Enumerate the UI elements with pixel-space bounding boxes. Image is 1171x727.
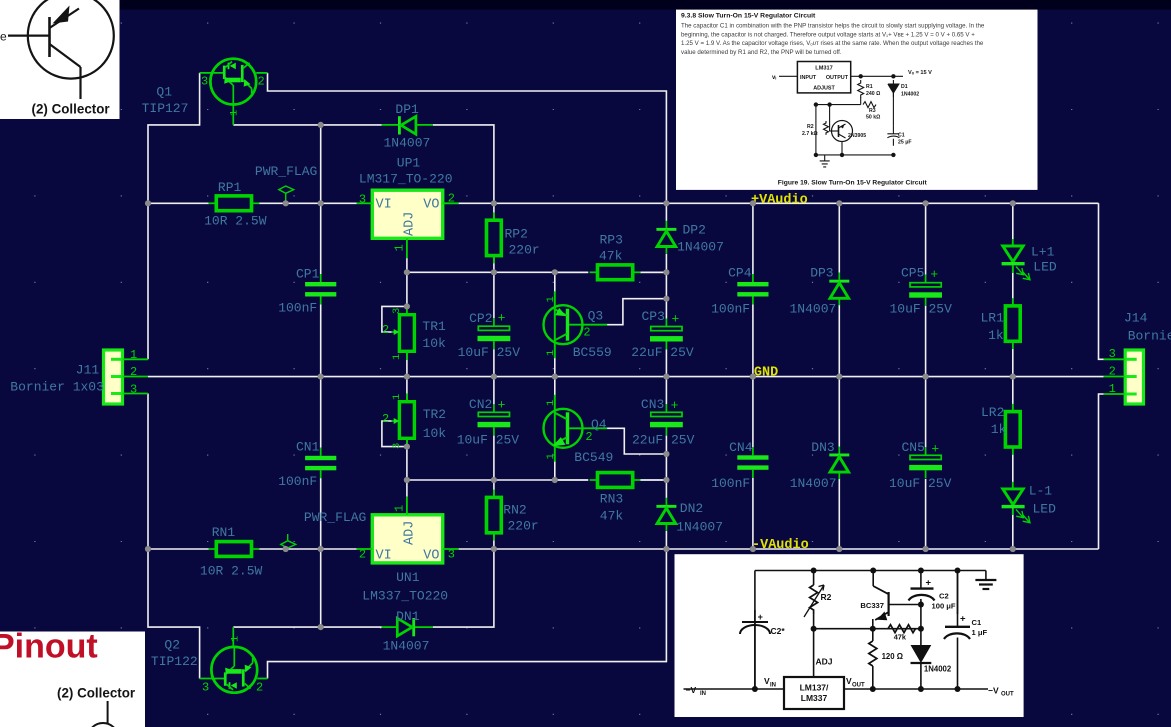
svg-text:220r: 220r bbox=[509, 243, 540, 258]
junction at (666.4,480.0) bbox=[663, 477, 669, 483]
junction at (493.9,376.6) bbox=[491, 374, 497, 380]
wire: ADJ-N row bbox=[407, 479, 588, 481]
svg-text:1: 1 bbox=[130, 348, 137, 362]
svg-text:(2) Collector: (2) Collector bbox=[57, 685, 136, 700]
svg-text:47k: 47k bbox=[894, 633, 907, 642]
svg-text:ADJ: ADJ bbox=[403, 521, 418, 545]
junction at (406.9,306.4) bbox=[404, 303, 410, 309]
svg-text:1k: 1k bbox=[991, 422, 1007, 437]
svg-text:DP2: DP2 bbox=[683, 222, 706, 237]
svg-text:BC549: BC549 bbox=[574, 450, 613, 465]
svg-text:240 Ω: 240 Ω bbox=[866, 91, 880, 97]
capacitor CN1 100nF bbox=[305, 456, 336, 460]
svg-text:TIP127: TIP127 bbox=[142, 101, 189, 116]
svg-text:DP3: DP3 bbox=[810, 266, 833, 281]
svg-text:−V: −V bbox=[988, 686, 999, 696]
svg-text:RP3: RP3 bbox=[600, 233, 623, 248]
svg-text:Vₒ = 15 V: Vₒ = 15 V bbox=[908, 70, 932, 76]
wire: CN3 column bbox=[665, 377, 667, 405]
svg-text:10uF 25V: 10uF 25V bbox=[889, 476, 952, 491]
svg-text:1N4002: 1N4002 bbox=[924, 665, 952, 674]
svg-text:OUT: OUT bbox=[1001, 692, 1014, 698]
svg-text:VI: VI bbox=[376, 198, 392, 213]
svg-text:OUTPUT: OUTPUT bbox=[826, 75, 849, 81]
junction at (925.6,549.0) bbox=[923, 546, 929, 552]
svg-text:+: + bbox=[498, 311, 506, 326]
svg-text:C1: C1 bbox=[972, 618, 982, 627]
wire: DN1 right to UN1 VO junction bbox=[433, 549, 494, 627]
svg-text:3: 3 bbox=[448, 548, 455, 562]
capacitor CP4 100nF bbox=[737, 282, 768, 286]
wire: Q1 base row to DP1 bbox=[233, 124, 381, 126]
svg-text:CP5: CP5 bbox=[901, 265, 924, 280]
regulator UP1 LM317_TO-220 bbox=[357, 190, 459, 258]
svg-text:22uF 25V: 22uF 25V bbox=[632, 433, 695, 448]
svg-text:DN3: DN3 bbox=[811, 440, 834, 455]
inset: bottom-left pinout image bbox=[0, 628, 145, 727]
svg-text:(2) Collector: (2) Collector bbox=[32, 101, 111, 116]
svg-text:100nF: 100nF bbox=[711, 301, 750, 316]
svg-text:TR1: TR1 bbox=[422, 319, 446, 334]
svg-text:Q3: Q3 bbox=[588, 309, 604, 324]
resistor RP2 220r bbox=[487, 220, 502, 255]
capacitor CP3 22uF 25V bbox=[651, 327, 682, 331]
svg-text:+: + bbox=[498, 398, 506, 413]
wire: Q3 base tap to CP3 column bbox=[607, 299, 666, 325]
junction at (493.9,480.0) bbox=[491, 477, 497, 483]
junction at (666.4,203.3) bbox=[663, 200, 669, 206]
transistor Q4 BC549 bbox=[544, 395, 608, 462]
svg-text:10R 2.5W: 10R 2.5W bbox=[204, 214, 267, 229]
junction at (554.8,272.3) bbox=[552, 269, 558, 275]
svg-text:IN: IN bbox=[700, 691, 706, 697]
svg-text:PWR_FLAG: PWR_FLAG bbox=[304, 510, 366, 525]
svg-text:1.25 V = 1.9 V. As the capacit: 1.25 V = 1.9 V. As the capacitor voltage… bbox=[681, 40, 984, 47]
svg-text:LM337: LM337 bbox=[801, 693, 828, 703]
wire: -V input row (left) bbox=[148, 548, 209, 550]
wire: DN2 column bbox=[665, 480, 667, 498]
svg-text:INPUT: INPUT bbox=[800, 75, 817, 81]
svg-text:2.7 kΩ: 2.7 kΩ bbox=[802, 131, 818, 137]
svg-text:Q1: Q1 bbox=[156, 85, 172, 100]
junction at (752.9,376.6) bbox=[750, 374, 756, 380]
junction at (554.8,480.0) bbox=[552, 477, 558, 483]
svg-text:CN3: CN3 bbox=[641, 397, 664, 412]
svg-text:beginning, the capacitor is no: beginning, the capacitor is not charged.… bbox=[681, 31, 975, 38]
svg-text:100nF: 100nF bbox=[278, 300, 317, 315]
svg-text:50 kΩ: 50 kΩ bbox=[866, 115, 880, 121]
junction at (406.9,376.6) bbox=[404, 374, 410, 380]
junction at (752.9,549.0) bbox=[750, 546, 756, 552]
wire: Q1 pin3 path to left rail bbox=[148, 73, 200, 359]
svg-text:1: 1 bbox=[393, 244, 407, 251]
junction at (406.9,480.0) bbox=[404, 477, 410, 483]
svg-text:Q4: Q4 bbox=[591, 417, 607, 432]
svg-text:C2: C2 bbox=[939, 592, 949, 601]
resistor LR1 1k bbox=[1005, 306, 1020, 341]
junction at (320.7,627.1) bbox=[318, 624, 324, 630]
svg-text:LED: LED bbox=[1033, 259, 1057, 274]
resistor RN2 220r bbox=[487, 497, 502, 532]
diode DN1 1N4007 bbox=[382, 618, 433, 636]
svg-text:2: 2 bbox=[130, 365, 137, 379]
svg-text:RP2: RP2 bbox=[505, 227, 528, 242]
svg-text:J14: J14 bbox=[1124, 311, 1148, 326]
junction at (752.9,203.3) bbox=[750, 200, 756, 206]
junction at (666.4,454) bbox=[663, 451, 669, 457]
wire: TR1 column and wiper bracket bbox=[406, 272, 408, 306]
svg-text:J11: J11 bbox=[76, 363, 100, 378]
svg-text:LM317_TO-220: LM317_TO-220 bbox=[359, 172, 453, 187]
transistor Q2 TIP122 bbox=[200, 627, 268, 693]
wire: UP1 ADJ pin riser bbox=[406, 258, 408, 272]
svg-text:3: 3 bbox=[1109, 347, 1116, 361]
inset: top-left transistor pinout image bbox=[0, 0, 120, 119]
svg-text:Q2: Q2 bbox=[164, 638, 180, 653]
svg-text:Pinout: Pinout bbox=[0, 628, 98, 666]
junction at (925.6,376.6) bbox=[923, 374, 929, 380]
wire: CP2 column bbox=[493, 272, 495, 318]
svg-text:2: 2 bbox=[359, 548, 366, 562]
capacitor CP1 100nF bbox=[305, 282, 336, 286]
wire: RN3 leads bbox=[555, 479, 588, 481]
svg-text:3: 3 bbox=[202, 681, 209, 695]
svg-text:ADJ: ADJ bbox=[403, 212, 418, 236]
transistor Q3 BC559 bbox=[544, 291, 608, 358]
svg-text:1: 1 bbox=[393, 505, 407, 512]
wire: DP1 right to VO junction bbox=[433, 125, 494, 203]
svg-text:2: 2 bbox=[382, 412, 389, 426]
svg-text:D1: D1 bbox=[901, 84, 908, 90]
svg-text:R3: R3 bbox=[869, 108, 876, 114]
wire: DP2 column bbox=[665, 203, 667, 221]
wire: RP3 leads bbox=[555, 271, 588, 273]
svg-text:OUT: OUT bbox=[852, 683, 865, 689]
svg-text:C2*: C2* bbox=[771, 626, 786, 636]
svg-text:IN: IN bbox=[770, 683, 776, 689]
svg-text:CP1: CP1 bbox=[296, 266, 320, 281]
svg-text:10k: 10k bbox=[423, 426, 447, 441]
wire: GND row bbox=[148, 376, 1104, 378]
svg-text:ADJ: ADJ bbox=[816, 657, 833, 667]
svg-text:2: 2 bbox=[258, 75, 265, 89]
wire: CP1/CN1 column bbox=[320, 125, 322, 274]
svg-text:3: 3 bbox=[359, 193, 366, 207]
junction at (554.8,376.6) bbox=[552, 374, 558, 380]
svg-text:VO: VO bbox=[423, 198, 439, 213]
wire: UN1 ADJ pin riser bbox=[406, 480, 408, 497]
svg-text:L-1: L-1 bbox=[1029, 483, 1053, 498]
LED L-1 bbox=[1002, 482, 1030, 523]
svg-text:VI: VI bbox=[376, 549, 392, 564]
wire: Q3 column bbox=[554, 272, 556, 293]
svg-text:RN3: RN3 bbox=[600, 491, 623, 506]
wire: ADJ-P row bbox=[407, 271, 588, 273]
junction at (320.7,203.3) bbox=[318, 200, 324, 206]
svg-text:The capacitor C1 in combinatio: The capacitor C1 in combination with the… bbox=[681, 23, 985, 30]
capacitor CP2 10uF 25V bbox=[478, 326, 509, 330]
wire: left rail J11 pin3 down to Q2 bbox=[148, 394, 200, 679]
svg-text:CP2: CP2 bbox=[469, 311, 492, 326]
junction at (320.7,549.0) bbox=[318, 546, 324, 552]
svg-text:1 μF: 1 μF bbox=[972, 628, 988, 637]
wire: Q4 base tap to CN3 column bbox=[607, 428, 666, 454]
svg-text:VO: VO bbox=[423, 549, 439, 564]
wire: L+1/LR1 column bbox=[1012, 203, 1014, 239]
svg-text:-VAudio: -VAudio bbox=[752, 538, 809, 553]
svg-text:+: + bbox=[758, 612, 763, 622]
svg-text:L+1: L+1 bbox=[1031, 244, 1055, 259]
svg-text:BC337: BC337 bbox=[860, 601, 884, 610]
wire: CP3 column bbox=[665, 272, 667, 318]
svg-text:1N4007: 1N4007 bbox=[383, 639, 430, 654]
svg-text:+: + bbox=[926, 578, 932, 589]
capacitor CN5 10uF 25V bbox=[910, 455, 941, 459]
junction at (493.9,549.0) bbox=[491, 546, 497, 552]
junction at (406.9,446.6) bbox=[404, 444, 410, 450]
svg-text:−V: −V bbox=[686, 685, 697, 695]
junction at (285.7,203.3) bbox=[283, 200, 289, 206]
junction at (406.9,272.3) bbox=[404, 269, 410, 275]
svg-text:1: 1 bbox=[545, 350, 557, 356]
resistor RN3 47k bbox=[598, 473, 633, 488]
junction at (925.6,203.3) bbox=[923, 200, 929, 206]
svg-text:ADJUST: ADJUST bbox=[813, 86, 835, 92]
inset: bottom-right LM137/LM337 application figure bbox=[675, 554, 1024, 717]
svg-text:3: 3 bbox=[391, 443, 403, 449]
svg-text:CN2: CN2 bbox=[469, 397, 492, 412]
wire: CP5 column bbox=[925, 203, 927, 274]
svg-text:TIP122: TIP122 bbox=[151, 654, 198, 669]
capacitor CN2 10uF 25V bbox=[478, 412, 509, 416]
svg-text:CP3: CP3 bbox=[642, 309, 665, 324]
svg-text:RN2: RN2 bbox=[503, 503, 526, 518]
svg-text:25 μF: 25 μF bbox=[898, 140, 912, 146]
wire: CN5 column bbox=[925, 377, 927, 448]
junction at (1012.8,376.6) bbox=[1010, 374, 1016, 380]
svg-text:value determined by R1 and R2,: value determined by R1 and R2, the PNP w… bbox=[681, 49, 842, 56]
junction at (320.7,376.6) bbox=[318, 374, 324, 380]
junction at (839.3,376.6) bbox=[836, 374, 842, 380]
power flag PWR_FLAG (bottom) bbox=[281, 534, 296, 548]
svg-text:TR2: TR2 bbox=[423, 407, 446, 422]
junction at (839.3,203.3) bbox=[836, 200, 842, 206]
svg-text:DP1: DP1 bbox=[395, 102, 419, 117]
svg-text:RN1: RN1 bbox=[212, 525, 236, 540]
svg-text:3: 3 bbox=[201, 75, 208, 89]
wire: DP3 column bbox=[838, 203, 840, 272]
wire: Q4 column bbox=[554, 377, 556, 397]
svg-text:3: 3 bbox=[130, 383, 137, 397]
svg-text:CN5: CN5 bbox=[902, 440, 925, 455]
resistor LR2 1k bbox=[1005, 412, 1020, 447]
svg-text:1N4007: 1N4007 bbox=[790, 301, 837, 316]
wire: Q2 base row to DN1 bbox=[233, 626, 381, 628]
svg-text:C1: C1 bbox=[898, 133, 905, 139]
svg-text:2: 2 bbox=[448, 192, 455, 206]
wire: +V rail down right side to J14 pin3 bbox=[1099, 203, 1104, 359]
junction at (666.4,298.7) bbox=[663, 296, 669, 302]
wire: LR2/L-1 column bbox=[1012, 377, 1014, 412]
svg-text:+VAudio: +VAudio bbox=[751, 193, 808, 208]
svg-text:+: + bbox=[931, 442, 939, 457]
svg-text:CN4: CN4 bbox=[729, 440, 753, 455]
svg-text:LM137/: LM137/ bbox=[800, 683, 829, 693]
svg-text:220r: 220r bbox=[508, 519, 539, 534]
svg-text:LED: LED bbox=[1033, 501, 1057, 516]
wire: CN4 column bbox=[752, 377, 754, 448]
resistor RP3 47k bbox=[598, 265, 633, 280]
diode DP3 1N4007 bbox=[829, 280, 849, 283]
junction at (839.3,549.0) bbox=[836, 546, 842, 552]
svg-text:2: 2 bbox=[256, 681, 263, 695]
svg-text:3: 3 bbox=[391, 308, 403, 314]
svg-text:CN1: CN1 bbox=[296, 440, 320, 455]
svg-text:1N4007: 1N4007 bbox=[677, 240, 724, 255]
junction at (1012.8,203.3) bbox=[1010, 200, 1016, 206]
junction at (493.9,272.3) bbox=[491, 269, 497, 275]
wire: TR2 column and wiper bracket bbox=[406, 377, 408, 402]
wire: +VAudio rail bbox=[459, 202, 1099, 204]
svg-text:CP4: CP4 bbox=[728, 266, 752, 281]
svg-text:1N4007: 1N4007 bbox=[384, 135, 431, 150]
svg-text:1: 1 bbox=[545, 400, 557, 406]
svg-text:LM337_TO220: LM337_TO220 bbox=[362, 588, 448, 603]
svg-text:10uF 25V: 10uF 25V bbox=[457, 432, 520, 447]
junction at (666.4,272.3) bbox=[663, 269, 669, 275]
svg-text:100 μF: 100 μF bbox=[932, 602, 956, 611]
svg-text:+: + bbox=[671, 312, 679, 327]
svg-text:LM317: LM317 bbox=[815, 66, 832, 72]
junction at (1012.8,549.0) bbox=[1010, 546, 1016, 552]
junction at (320.7,124.9) bbox=[318, 122, 324, 128]
svg-text:2: 2 bbox=[583, 326, 590, 340]
resistor RN1 10R 2.5W bbox=[216, 542, 251, 557]
trimmer TR2 10k bbox=[392, 393, 415, 446]
capacitor CP5 10uF 25V bbox=[910, 283, 941, 287]
svg-text:10uF 25V: 10uF 25V bbox=[890, 301, 953, 316]
junction at (666.4,549.0) bbox=[663, 546, 669, 552]
wire: RN2 column bbox=[493, 480, 495, 498]
wire: +V input row (left) bbox=[148, 202, 209, 204]
svg-text:1: 1 bbox=[230, 636, 242, 642]
svg-text:DN2: DN2 bbox=[680, 501, 703, 516]
diode DN2 1N4007 bbox=[656, 505, 676, 508]
wire: Q2 pin2 to bottom bus up to -V rail bbox=[268, 549, 667, 679]
diode DN3 1N4007 bbox=[829, 454, 849, 457]
svg-text:UN1: UN1 bbox=[396, 570, 420, 585]
junction at (666.4,376.6) bbox=[663, 374, 669, 380]
junction at (148,203.3) bbox=[145, 200, 151, 206]
svg-text:PWR_FLAG: PWR_FLAG bbox=[255, 164, 317, 179]
connector J14 Bornier bbox=[1104, 350, 1144, 404]
trimmer TR1 10k bbox=[392, 306, 415, 360]
svg-text:2: 2 bbox=[585, 430, 592, 444]
wire: -V rail up right side to J14 pin1 bbox=[1099, 394, 1104, 549]
svg-text:1N4007: 1N4007 bbox=[676, 519, 723, 534]
resistor RP1 10R 2.5W bbox=[216, 196, 251, 211]
diode DP1 1N4007 bbox=[382, 116, 433, 134]
svg-text:9.3.8 Slow Turn-On 15-V Regu: 9.3.8 Slow Turn-On 15-V Regulator Circui… bbox=[681, 13, 816, 20]
svg-text:1: 1 bbox=[545, 453, 557, 459]
svg-text:R2: R2 bbox=[807, 124, 814, 130]
svg-text:1N4007: 1N4007 bbox=[790, 476, 837, 491]
svg-text:10uF 25V: 10uF 25V bbox=[458, 345, 521, 360]
junction at (285.7,549.0) bbox=[283, 546, 289, 552]
svg-text:e: e bbox=[0, 30, 7, 44]
wire: RP2 column VO to ADJ row bbox=[493, 203, 495, 220]
inset: top-right datasheet excerpt (Slow Turn-On 15-V Regulator Circuit) bbox=[676, 10, 1038, 190]
svg-text:1: 1 bbox=[229, 110, 241, 116]
svg-text:LR1: LR1 bbox=[981, 311, 1005, 326]
svg-text:R1: R1 bbox=[866, 84, 873, 90]
junction at (493.9,203.3) bbox=[491, 200, 497, 206]
svg-text:+: + bbox=[960, 614, 966, 625]
svg-text:2: 2 bbox=[382, 323, 389, 337]
svg-text:GND: GND bbox=[754, 366, 778, 381]
svg-text:120 Ω: 120 Ω bbox=[882, 652, 903, 661]
wire: DN3 column bbox=[838, 377, 840, 447]
svg-text:vᵢ: vᵢ bbox=[772, 75, 776, 81]
svg-text:Figure 19. Slow Turn-On 15-V: Figure 19. Slow Turn-On 15-V Regulator C… bbox=[778, 179, 928, 186]
svg-text:22uF 25V: 22uF 25V bbox=[631, 345, 694, 360]
svg-text:1: 1 bbox=[391, 394, 403, 400]
svg-text:1: 1 bbox=[391, 354, 403, 360]
svg-text:1N4002: 1N4002 bbox=[901, 92, 919, 98]
capacitor CN3 22uF 25V bbox=[651, 412, 682, 416]
diode DP2 1N4007 bbox=[656, 228, 676, 231]
svg-text:1: 1 bbox=[545, 296, 557, 302]
svg-text:2: 2 bbox=[1109, 365, 1116, 379]
svg-text:Bornier 1x03: Bornier 1x03 bbox=[10, 380, 104, 395]
regulator UN1 LM337_TO220 bbox=[357, 497, 459, 564]
svg-text:100nF: 100nF bbox=[711, 476, 750, 491]
capacitor CN4 100nF bbox=[737, 455, 768, 459]
svg-text:R2: R2 bbox=[821, 592, 832, 602]
wire: CN2 column bbox=[493, 377, 495, 405]
svg-text:10k: 10k bbox=[422, 336, 446, 351]
svg-text:10R 2.5W: 10R 2.5W bbox=[200, 564, 263, 579]
svg-text:2N3905: 2N3905 bbox=[848, 133, 866, 139]
svg-text:100nF: 100nF bbox=[278, 474, 317, 489]
svg-text:1k: 1k bbox=[988, 328, 1004, 343]
power flag PWR_FLAG (top) bbox=[279, 186, 294, 202]
svg-text:+: + bbox=[671, 398, 679, 413]
svg-text:+: + bbox=[930, 267, 938, 282]
svg-text:47k: 47k bbox=[600, 509, 624, 524]
svg-text:DN1: DN1 bbox=[396, 609, 420, 624]
wire: -VAudio rail bbox=[459, 548, 1099, 550]
svg-text:RP1: RP1 bbox=[218, 180, 242, 195]
LED L+1 bbox=[1002, 239, 1030, 280]
svg-text:BC559: BC559 bbox=[573, 345, 612, 360]
svg-text:UP1: UP1 bbox=[397, 156, 421, 171]
svg-text:1: 1 bbox=[1109, 382, 1116, 396]
wire: Q1 pin2 to top bus down to +V rail bbox=[268, 73, 667, 203]
connector J11 Bornier 1x03 bbox=[104, 350, 149, 404]
svg-text:47k: 47k bbox=[599, 248, 623, 263]
svg-text:LR2: LR2 bbox=[981, 405, 1004, 420]
junction at (148,549.0) bbox=[145, 546, 151, 552]
wire: CP4 column bbox=[752, 203, 754, 274]
transistor Q1 TIP127 bbox=[200, 59, 268, 125]
svg-text:Bornier: Bornier bbox=[1128, 329, 1171, 344]
